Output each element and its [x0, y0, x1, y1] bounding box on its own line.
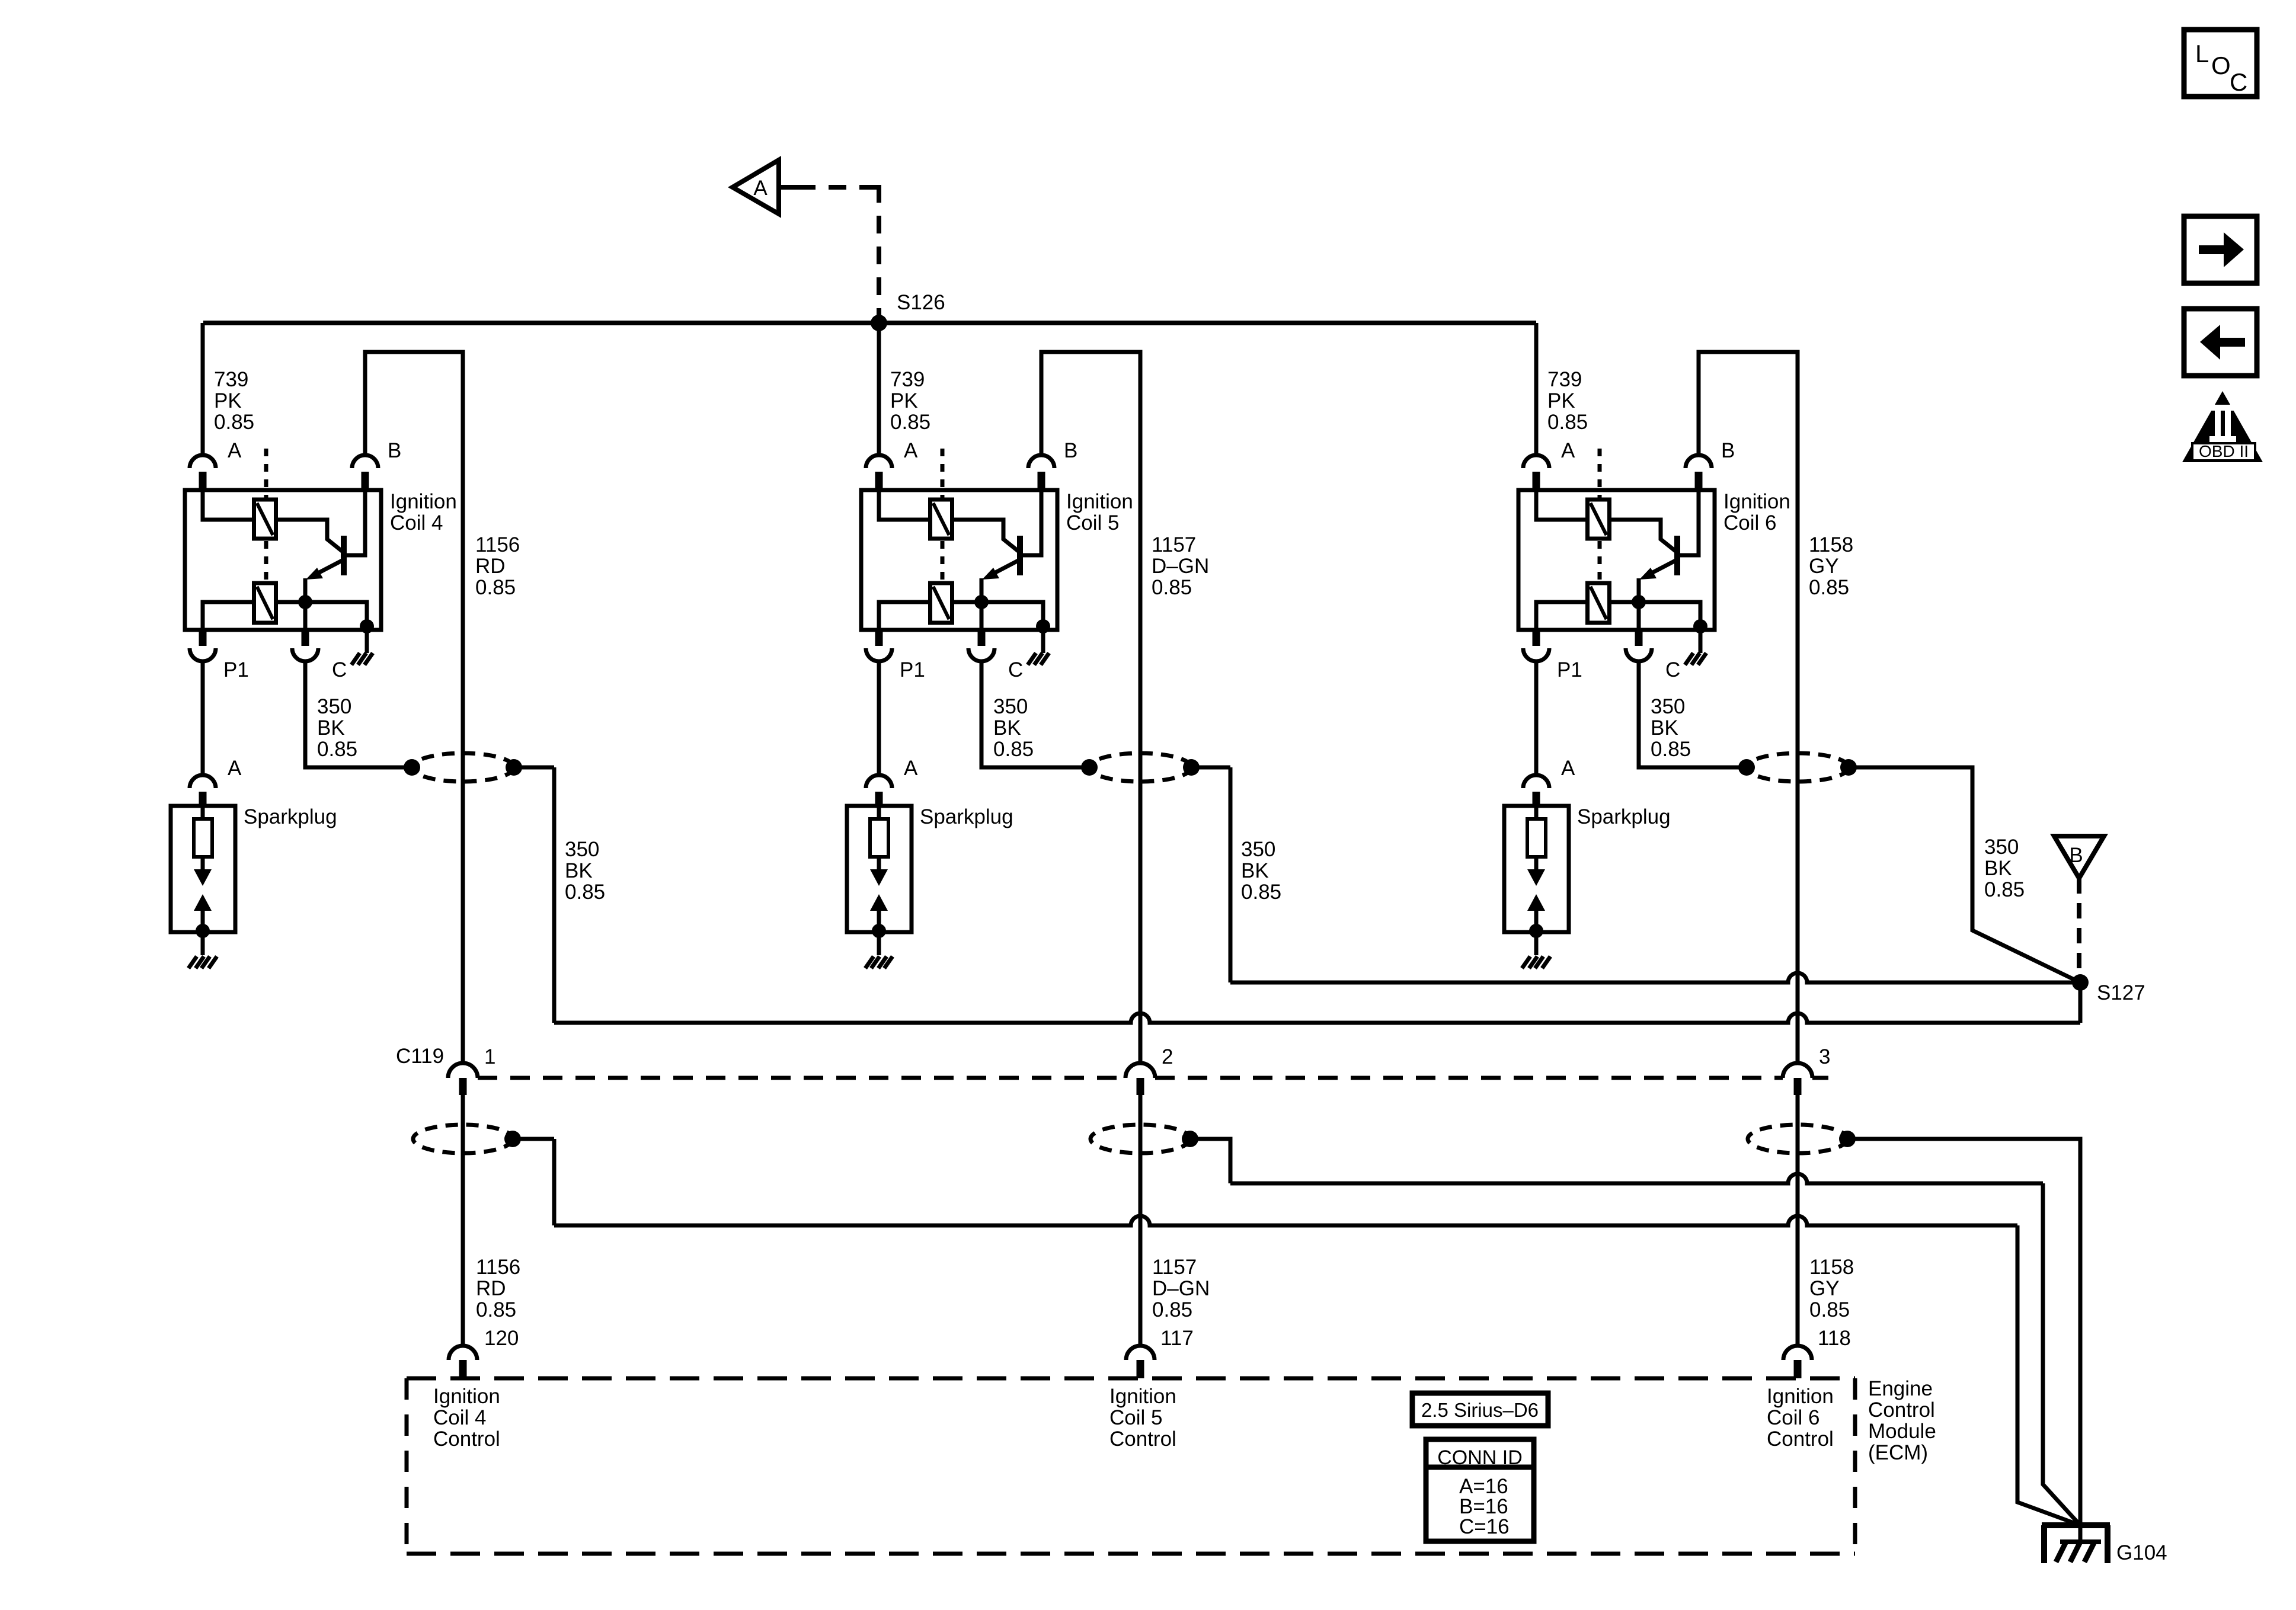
wire C119 to ECM pin (coil 6) [1796, 1095, 1800, 1346]
wire 1158 GY control coil 6 [1699, 352, 1798, 1064]
svg-text:C: C [332, 658, 347, 681]
svg-text:C119: C119 [396, 1045, 444, 1068]
junction emitter/secondary coil 5 [974, 595, 989, 609]
wire 739 PK drop to coil 4 [201, 323, 205, 455]
off-page connector triangle A [733, 160, 779, 214]
wire 350 BK coil5 tap upper [1191, 766, 1230, 770]
wire 739 PK drop to coil 6 [1534, 323, 1539, 455]
connector C119 pin 2 [1125, 1063, 1155, 1078]
connector pin A coil 5 [866, 455, 892, 468]
connector pin C coil 5 [978, 630, 986, 646]
svg-text:A: A [904, 757, 918, 780]
ground (coil 6 internal) [1685, 653, 1706, 665]
wire 350 BK from pin C coil 6 [1639, 661, 1747, 767]
svg-text:L: L [2195, 40, 2209, 68]
transistor Q6 (coil driver) [1639, 490, 1699, 602]
dashed core line coil 5 [941, 449, 945, 583]
wire 1156 RD control coil 4 [365, 352, 463, 1064]
secondary winding coil 6 [1588, 583, 1610, 623]
connector C119 pin 1 [448, 1063, 478, 1078]
svg-text:A: A [228, 757, 242, 780]
wire secondary to ground coil 6 [1610, 602, 1700, 630]
icon LOC box [2184, 30, 2257, 97]
svg-text:117: 117 [1160, 1327, 1194, 1350]
connector sparkplug 5 [866, 775, 892, 788]
splice dot left (upper, coil 5) [1081, 759, 1098, 776]
svg-text:2: 2 [1162, 1045, 1173, 1068]
svg-text:Sparkplug: Sparkplug [920, 805, 1013, 828]
sparkplug 6 [1504, 806, 1569, 938]
connector pin P1 coil 4 [199, 630, 207, 646]
connector ECM pin 120 [449, 1346, 477, 1360]
wire primary to base coil 6 [1610, 520, 1675, 551]
svg-text:3: 3 [1819, 1045, 1830, 1068]
connector pin A coil 4 [190, 455, 216, 468]
junction at box edge coil 6 [1693, 619, 1707, 633]
svg-text:CONN ID: CONN ID [1437, 1446, 1523, 1469]
svg-text:S126: S126 [897, 291, 945, 314]
wire junction to pin C coil 6 [1637, 602, 1641, 630]
connector C119 dashed line [478, 1076, 1828, 1080]
connector C119 pin 3 [1783, 1063, 1812, 1078]
wire secondary to ground coil 5 [952, 602, 1043, 630]
dashed wire from connector A (horizontal) [798, 185, 883, 190]
svg-text:A: A [228, 439, 242, 462]
icon arrow right box [2184, 216, 2257, 283]
ground sparkplug 6 [1522, 956, 1550, 968]
svg-text:118: 118 [1818, 1327, 1851, 1350]
svg-text:A: A [1561, 439, 1575, 462]
svg-text:P1: P1 [1557, 658, 1582, 681]
wire 1157 D&#8211;GN control coil 5 [1041, 352, 1140, 1064]
wire to internal ground coil 4 [365, 630, 369, 653]
wire 350 BK coil4 long run to S127 [554, 1013, 2080, 1023]
connector sparkplug 4 [190, 775, 216, 788]
ground sparkplug 5 [865, 956, 893, 968]
wire secondary to P1 coil 5 [879, 602, 930, 630]
svg-text:C: C [1665, 658, 1680, 681]
svg-text:Sparkplug: Sparkplug [1577, 805, 1671, 828]
junction at box edge coil 4 [360, 619, 374, 633]
wire sparkplug 5 to ground [877, 932, 881, 955]
wire 739 PK bus [203, 321, 1536, 325]
ground (coil 5 internal) [1028, 653, 1049, 665]
dashed wire from connector A (vertical) [877, 185, 881, 317]
off-page connector triangle B [2054, 836, 2104, 878]
wire A to primary coil 6 [1536, 490, 1588, 520]
wire 350 BK from pin C coil 4 [305, 661, 412, 767]
wire primary to base coil 4 [276, 520, 342, 551]
junction emitter/secondary coil 4 [298, 595, 312, 609]
splice dot (lower, coil 4) [504, 1131, 521, 1147]
ECM dashed box [407, 1378, 1855, 1554]
wire ground tap coil6 to G104 [1847, 1139, 2080, 1542]
wire primary to base coil 5 [952, 520, 1018, 551]
wire to internal ground coil 6 [1699, 630, 1703, 653]
connector pin B coil 5 [1028, 455, 1054, 468]
ground G104 [2042, 1525, 2110, 1563]
wire A to primary coil 4 [203, 490, 254, 520]
sparkplug 4 [171, 806, 235, 938]
connector sparkplug 6 [1523, 775, 1549, 788]
svg-text:C=16: C=16 [1459, 1515, 1510, 1538]
dashed core line coil 4 [264, 449, 268, 583]
junction emitter/secondary coil 6 [1632, 595, 1646, 609]
transistor Q5 (coil driver) [981, 490, 1041, 602]
splice S126 [871, 315, 887, 331]
junction at box edge coil 5 [1036, 619, 1050, 633]
svg-text:1: 1 [484, 1045, 495, 1068]
wire C119 to ECM pin (coil 4) [461, 1095, 465, 1346]
wire secondary to ground coil 4 [276, 602, 367, 630]
wire sparkplug 6 to ground [1534, 932, 1539, 955]
sparkplug 5 [847, 806, 912, 938]
secondary winding coil 5 [930, 583, 952, 623]
icon OBD II triangle [2182, 391, 2263, 462]
svg-text:B: B [388, 439, 401, 462]
svg-text:Sparkplug: Sparkplug [244, 805, 337, 828]
wire ground tap coil5 [1190, 1139, 1230, 1183]
wire P1 to sparkplug coil 6 [1534, 661, 1539, 775]
ground (coil 4 internal) [351, 653, 373, 665]
wire sparkplug 4 to ground [201, 932, 205, 955]
connector ECM pin 118 [1783, 1346, 1812, 1360]
ground sparkplug 4 [188, 956, 217, 968]
svg-text:OBD II: OBD II [2199, 442, 2249, 460]
svg-text:P1: P1 [223, 658, 249, 681]
svg-text:B: B [1064, 439, 1077, 462]
wire 350 BK coil5 long run to S127 [1230, 973, 2080, 982]
connector pin P1 coil 5 [875, 630, 883, 646]
connector pin B coil 4 [352, 455, 378, 468]
connector pin C coil 4 [302, 630, 309, 646]
harness pass-through ellipse (upper, coil 4) [412, 753, 514, 782]
splice dot (lower, coil 5) [1182, 1131, 1198, 1147]
svg-text:2.5 Sirius–D6: 2.5 Sirius–D6 [1421, 1399, 1539, 1421]
splice dot right (upper, coil 5) [1183, 759, 1200, 776]
svg-text:S127: S127 [2097, 981, 2145, 1004]
box 2.5 Sirius-D6 [1412, 1393, 1548, 1426]
connector ECM pin 117 [1126, 1346, 1155, 1360]
wire ground tap coil4 [513, 1137, 554, 1141]
svg-text:B: B [1721, 439, 1735, 462]
svg-text:C: C [1008, 658, 1023, 681]
splice dot right (upper, coil 6) [1840, 759, 1857, 776]
connector pin P1 coil 6 [1533, 630, 1540, 646]
CONN ID table [1426, 1439, 1534, 1541]
dashed core line coil 6 [1598, 449, 1602, 583]
wire secondary to P1 coil 6 [1536, 602, 1588, 630]
splice S127 [2072, 974, 2089, 991]
ignition coil 4 box [185, 490, 381, 630]
splice dot left (upper, coil 4) [404, 759, 420, 776]
primary winding coil 6 [1588, 500, 1610, 539]
wire 350 BK coil6 run to S127 [1849, 767, 2080, 982]
wire 350 BK coil4 tap upper [513, 766, 554, 770]
wire 739 PK drop to coil 5 [877, 323, 881, 455]
harness pass-through ellipse (upper, coil 6) [1747, 753, 1849, 782]
splice dot (lower, coil 6) [1839, 1131, 1856, 1147]
wire stub from triangle A [779, 185, 798, 190]
svg-text:G104: G104 [2116, 1541, 2167, 1564]
connector pin A coil 6 [1523, 455, 1549, 468]
wire junction to pin C coil 4 [303, 602, 308, 630]
svg-text:B: B [2069, 844, 2083, 867]
svg-text:C: C [2230, 68, 2247, 96]
wire P1 to sparkplug coil 5 [877, 661, 881, 775]
svg-text:EngineControlModule(ECM): EngineControlModule(ECM) [1868, 1377, 1936, 1464]
ignition coil 6 box [1518, 490, 1715, 630]
splice dot right (upper, coil 4) [506, 759, 522, 776]
connector pin B coil 6 [1686, 455, 1712, 468]
wire P1 to sparkplug coil 4 [201, 661, 205, 775]
transistor Q4 (coil driver) [305, 490, 365, 602]
svg-text:P1: P1 [900, 658, 925, 681]
wire junction to pin C coil 5 [980, 602, 984, 630]
svg-text:A: A [1561, 757, 1575, 780]
wire 350 BK from pin C coil 5 [981, 661, 1089, 767]
wire secondary to P1 coil 4 [203, 602, 254, 630]
primary winding coil 4 [254, 500, 276, 539]
ignition coil 5 box [861, 490, 1057, 630]
harness pass-through ellipse (lower, coil 5) [1091, 1125, 1190, 1153]
svg-text:120: 120 [484, 1327, 519, 1350]
connector pin C coil 6 [1635, 630, 1643, 646]
icon arrow left box [2184, 309, 2257, 376]
harness pass-through ellipse (lower, coil 6) [1748, 1125, 1847, 1153]
dashed wire connector B to S127 [2077, 878, 2081, 972]
svg-text:A: A [904, 439, 918, 462]
primary winding coil 5 [930, 500, 952, 539]
harness pass-through ellipse (lower, coil 4) [413, 1125, 513, 1153]
harness pass-through ellipse (upper, coil 5) [1089, 753, 1191, 782]
wire C119 to ECM pin (coil 5) [1139, 1095, 1143, 1346]
wire A to primary coil 5 [879, 490, 930, 520]
secondary winding coil 4 [254, 583, 276, 623]
wire to internal ground coil 5 [1041, 630, 1045, 653]
svg-text:A: A [753, 177, 768, 200]
splice dot left (upper, coil 6) [1738, 759, 1755, 776]
svg-text:O: O [2211, 52, 2231, 79]
